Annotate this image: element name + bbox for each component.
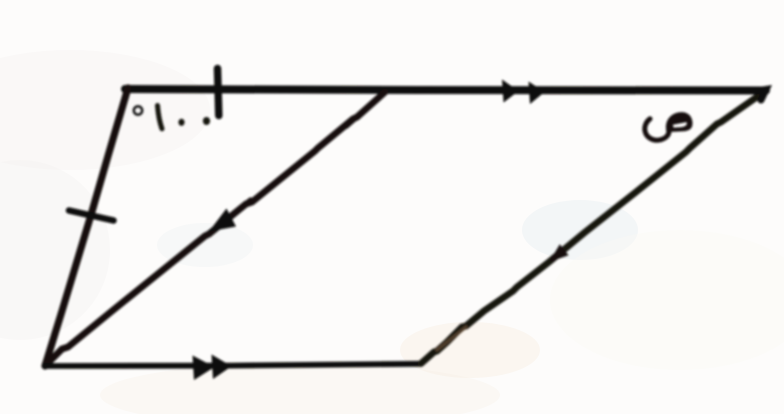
doubled-stroke accent on middle diagonal b: [308, 148, 319, 157]
arrowhead 2 on top line (points right): [529, 82, 545, 105]
arrowhead on right diagonal (points down-left): [549, 244, 568, 262]
doubled-stroke accent on middle diagonal a: [347, 118, 358, 128]
degree symbol of angle label: [134, 106, 142, 114]
left line (side AC): [45, 88, 128, 366]
arrowhead on middle diagonal (points down-left): [209, 209, 236, 232]
top line (parallel side AB): [125, 89, 766, 91]
Arabic zero dot 2: [203, 117, 210, 125]
letter Sad loop (right part): [666, 112, 693, 132]
arrowhead 1 on top line (points right): [502, 80, 519, 103]
doubled-stroke accent on right diagonal b: [714, 119, 727, 129]
middle diagonal (from top line to bottom-left corner): [46, 92, 385, 365]
bottom line (parallel side CD): [45, 364, 421, 366]
tick mark on left line: [69, 211, 114, 221]
letter Sad bowl (left part): [645, 119, 669, 140]
right diagonal lighter segment: [437, 327, 466, 350]
arrowhead 1 on bottom line (points right): [193, 356, 215, 381]
Arabic zero dot 1: [178, 119, 184, 126]
right diagonal (side DB): [421, 92, 764, 364]
tick mark on top line: [218, 69, 219, 116]
Arabic numeral one of 100: [158, 106, 163, 129]
doubled-stroke accent on middle diagonal c: [240, 199, 251, 208]
top-right corner overshoot: [756, 90, 766, 101]
doubled-stroke accent on right diagonal a: [612, 198, 628, 210]
arrowhead 2 on bottom line (points right): [212, 355, 232, 380]
